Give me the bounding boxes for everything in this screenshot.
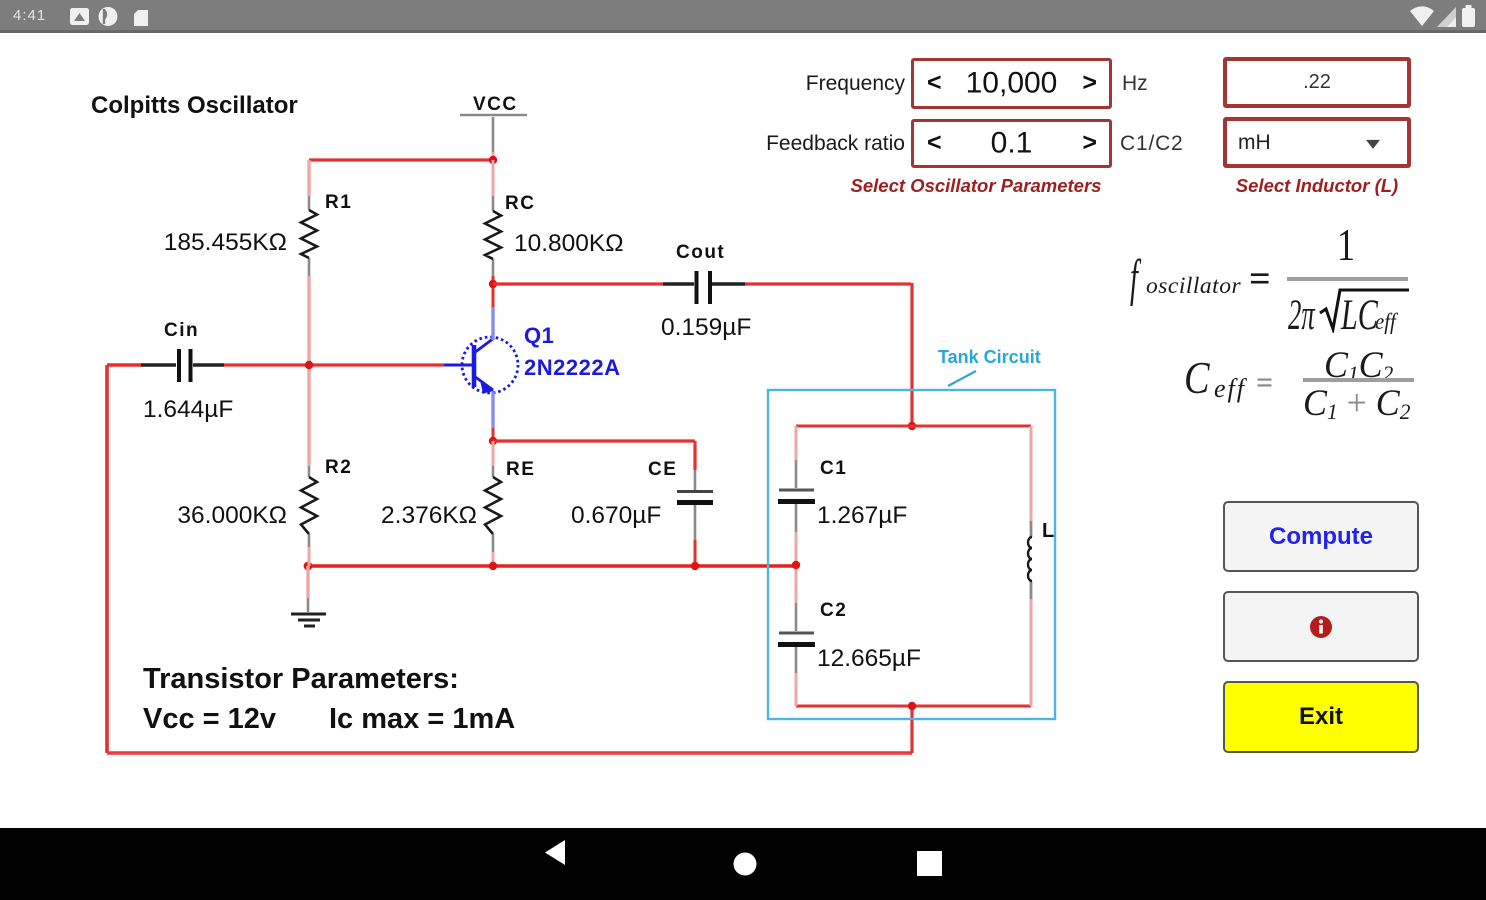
status bar (0, 0, 1486, 33)
svg-text:Cout: Cout (676, 242, 725, 263)
node R2/ground junction (304, 562, 313, 571)
node CE bottom junction (691, 562, 699, 570)
wire RE branch (492, 441, 495, 566)
power symbol VCC (460, 94, 527, 160)
svg-text:RE: RE (506, 459, 535, 480)
text Ic max = 1mA (329, 703, 515, 735)
svg-text:Cin: Cin (164, 320, 199, 341)
capacitor CE (677, 470, 713, 566)
value 2.376KΩ (381, 502, 477, 529)
value 1.267µF (817, 502, 907, 529)
svg-text:12.665µF: 12.665µF (817, 645, 921, 672)
ground (291, 614, 326, 626)
capacitor C2 (778, 603, 815, 673)
svg-text:C1: C1 (820, 458, 847, 479)
wire to ground (306, 566, 309, 612)
svg-text:0.670µF: 0.670µF (571, 502, 661, 529)
label Cout (676, 242, 725, 263)
label CE (648, 459, 677, 480)
svg-text:RC: RC (505, 193, 535, 214)
value 1.644µF (143, 396, 233, 423)
node base/R1/R2 junction (305, 361, 313, 369)
text Vcc = 12v (143, 703, 276, 735)
resistor R1 (301, 196, 317, 276)
node VCC-rail/RC junction (489, 156, 497, 164)
text Transistor Parameters (143, 663, 459, 695)
svg-text:Ic max = 1mA: Ic max = 1mA (329, 703, 515, 735)
title Colpitts Oscillator (91, 92, 298, 119)
right panel (705, 72, 905, 96)
wire tank left branch (795, 426, 798, 706)
formula f oscillator (0, 0, 1486, 2)
label Q1 (524, 323, 554, 348)
wire R2 branch (308, 465, 311, 566)
value 0.159µF (661, 314, 751, 341)
value 0.670µF (571, 502, 661, 529)
resistor RC (485, 196, 501, 276)
node tank top junction (908, 422, 916, 430)
back button (545, 840, 565, 865)
svg-text:Q1: Q1 (524, 323, 554, 348)
buttons (1223, 501, 1419, 572)
wire tank loop bottom (796, 705, 1031, 708)
capacitor C1 (778, 460, 815, 532)
resistor RE (485, 466, 501, 552)
wire VCC top rail (309, 158, 493, 161)
inductor L (1028, 521, 1032, 599)
svg-text:Colpitts Oscillator: Colpitts Oscillator (91, 92, 298, 119)
svg-text:Tank Circuit: Tank Circuit (938, 347, 1041, 367)
wire Cout to tank top (745, 283, 912, 426)
svg-text:185.455KΩ: 185.455KΩ (164, 229, 287, 256)
value 10.800KΩ (514, 230, 624, 257)
wire tank loop top (796, 425, 1031, 428)
node RE bottom junction (489, 562, 497, 570)
value 185.455KΩ (164, 229, 287, 256)
label L (1042, 520, 1054, 542)
svg-text:2N2222A: 2N2222A (524, 355, 620, 380)
svg-text:0.159µF: 0.159µF (661, 314, 751, 341)
svg-text:1.644µF: 1.644µF (143, 396, 233, 423)
value 2N2222A (524, 355, 620, 380)
capacitor Cin (141, 349, 224, 382)
label R2 (325, 457, 352, 478)
wire emitter top rail to CE (493, 441, 695, 470)
tank circuit bounding box (768, 390, 1055, 719)
wire RC branch vertical (492, 160, 495, 307)
value 12.665µF (817, 645, 921, 672)
svg-text:VCC: VCC (473, 94, 518, 115)
home button (734, 853, 757, 876)
svg-text:2.376KΩ: 2.376KΩ (381, 502, 477, 529)
wire bottom return rail (107, 706, 912, 753)
node tank feedback junction (792, 561, 800, 569)
svg-text:10.800KΩ: 10.800KΩ (514, 230, 624, 257)
wire ground rail (308, 564, 796, 568)
nav bar (0, 828, 1486, 900)
svg-text:Transistor Parameters:: Transistor Parameters: (143, 663, 459, 695)
svg-text:Vcc = 12v: Vcc = 12v (143, 703, 276, 735)
label Cin (164, 320, 199, 341)
node emitter junction (489, 437, 497, 445)
wire R1 branch vertical (307, 160, 310, 465)
wire base from Cin to Q1 (224, 363, 444, 366)
capacitor Cout (663, 271, 745, 304)
transistor Q1 (444, 307, 518, 428)
svg-text:L: L (1042, 520, 1054, 542)
label R1 (325, 192, 352, 213)
value 36.000KΩ (177, 502, 287, 529)
recent apps button (917, 851, 942, 876)
svg-text:R1: R1 (325, 192, 352, 213)
wire emitter to RE/CE rail (492, 428, 495, 441)
svg-text:CE: CE (648, 459, 677, 480)
resistor R2 (301, 466, 317, 547)
wire tank right branch (1030, 426, 1033, 706)
label C1 (820, 458, 847, 479)
wire input left loop (107, 365, 141, 753)
label C2 (820, 600, 847, 621)
svg-text:C2: C2 (820, 600, 847, 621)
formula C eff (0, 0, 1486, 1)
label RE (506, 459, 535, 480)
node collector/output junction (489, 280, 497, 288)
svg-text:R2: R2 (325, 457, 352, 478)
wire output to Cout (493, 282, 663, 285)
label Tank Circuit (938, 347, 1041, 386)
svg-text:36.000KΩ: 36.000KΩ (177, 502, 287, 529)
svg-text:1.267µF: 1.267µF (817, 502, 907, 529)
label RC (505, 193, 535, 214)
node tank bottom junction (908, 702, 916, 710)
